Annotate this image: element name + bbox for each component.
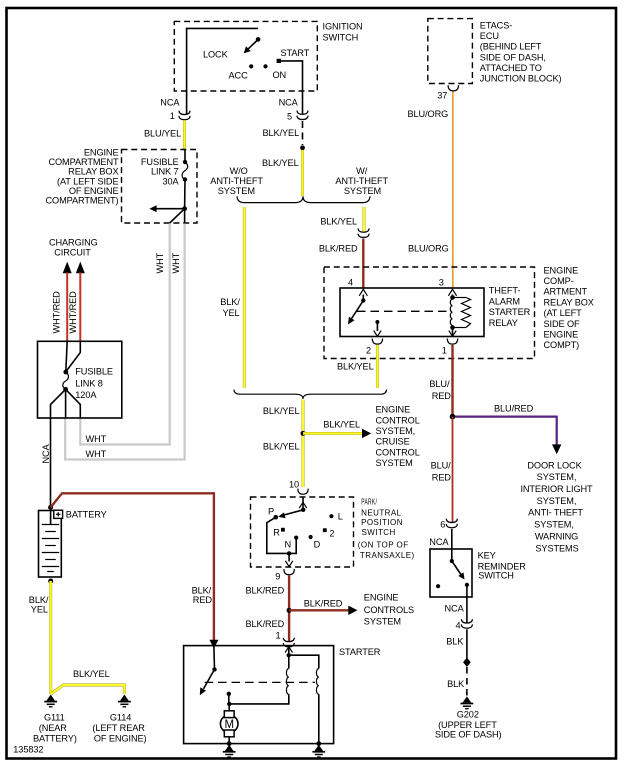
wire BLK/YEL branch to engine control [303, 432, 363, 435]
svg-text:ACC: ACC [229, 71, 249, 81]
svg-text:SYSTEM,: SYSTEM, [537, 496, 577, 506]
svg-text:BATTERY: BATTERY [66, 509, 107, 519]
svg-text:WHT: WHT [86, 449, 107, 459]
arrow to engine controls system [348, 606, 357, 615]
wire WHT lower run [65, 224, 184, 460]
node ignition common [256, 37, 261, 42]
svg-text:1: 1 [442, 346, 447, 356]
svg-text:COMPARTMENT: COMPARTMENT [48, 157, 119, 167]
wire WHT/RED 1 [66, 273, 68, 342]
svg-text:BLK/YEL: BLK/YEL [263, 406, 300, 416]
svg-text:RELAY BOX: RELAY BOX [544, 297, 594, 307]
svg-text:R: R [273, 528, 280, 538]
svg-text:BLK/YEL: BLK/YEL [337, 362, 374, 372]
svg-text:CONTROL: CONTROL [376, 447, 420, 457]
wire straight to WHT [184, 209, 186, 223]
svg-text:37: 37 [437, 90, 447, 100]
starter switch blade [204, 669, 215, 688]
svg-text:SYSTEM: SYSTEM [376, 458, 413, 468]
fusible link 8 box [38, 341, 122, 418]
svg-text:G114: G114 [110, 712, 131, 722]
svg-text:BLK/YEL: BLK/YEL [262, 158, 299, 168]
svg-text:WHT: WHT [86, 434, 107, 444]
svg-text:BLU/: BLU/ [429, 379, 450, 389]
svg-text:M: M [224, 719, 233, 731]
wire BLK/YEL battery to G111 [49, 581, 52, 694]
wire fusible link to junction [184, 180, 186, 209]
contact R [281, 528, 285, 532]
svg-text:SIDE OF: SIDE OF [544, 319, 581, 329]
svg-text:L: L [338, 512, 343, 522]
theft-alarm starter relay K1 box [340, 288, 484, 337]
node starter ground left [227, 741, 232, 746]
svg-text:SIDE OF DASH): SIDE OF DASH) [435, 730, 502, 740]
svg-text:120A: 120A [75, 390, 97, 400]
wire ignition internal feed [187, 28, 259, 114]
node battery negative [48, 579, 53, 584]
svg-text:BLK: BLK [447, 679, 465, 689]
svg-text:SYSTEM: SYSTEM [364, 616, 401, 626]
brace split w/o vs w/ anti-theft [237, 196, 370, 202]
svg-text:THEFT-: THEFT- [489, 286, 521, 296]
svg-text:RED: RED [432, 391, 452, 401]
svg-text:(AT LEFT SIDE: (AT LEFT SIDE [57, 176, 119, 186]
wire BLK/YEL w/ branch [363, 207, 366, 232]
wire pin10 into switch [302, 497, 304, 510]
relay output to pin 2 [375, 320, 379, 324]
svg-text:COMPARTMENT): COMPARTMENT) [46, 196, 119, 206]
svg-text:STARTER: STARTER [339, 647, 381, 657]
wire BLK/YEL w/o branch [243, 207, 246, 388]
node solenoid switch pivot [212, 667, 216, 671]
wire BLK/YEL splice to brace [301, 150, 304, 196]
wire BLK/RED battery cable to starter [51, 493, 214, 640]
pull-in winding L1 [288, 655, 290, 668]
key reminder switch S2 box [430, 549, 472, 597]
wire diagonal to WHT [170, 209, 185, 223]
svg-text:(LEFT REAR: (LEFT REAR [92, 723, 145, 733]
wire BLK dashed to G202 [466, 667, 468, 697]
arrow to engine control system [362, 429, 371, 438]
svg-text:ETACS-: ETACS- [480, 21, 512, 31]
svg-text:BLK/RED: BLK/RED [246, 585, 285, 595]
park/neutral position switch S3 dashed box [251, 497, 354, 567]
wire BLK/YEL merged [302, 400, 305, 488]
svg-text:ENGINE: ENGINE [376, 405, 411, 415]
svg-text:COMP-: COMP- [544, 276, 574, 286]
svg-text:30A: 30A [162, 176, 179, 186]
svg-text:4: 4 [456, 621, 461, 631]
node junction J1 [182, 206, 187, 211]
svg-text:BLK/: BLK/ [192, 585, 212, 595]
svg-text:1: 1 [276, 631, 281, 641]
svg-text:WARNING: WARNING [535, 531, 578, 541]
svg-text:IGNITION: IGNITION [323, 22, 363, 32]
svg-text:WHT/RED: WHT/RED [52, 291, 62, 334]
node BLK/YEL junction [301, 431, 306, 436]
wire pull-in to motor contact [229, 694, 288, 704]
wire battery feed into starter [213, 647, 216, 669]
starter mechanical link dashed [205, 681, 315, 683]
node engine controls junction [287, 608, 292, 613]
svg-text:BLK/RED: BLK/RED [304, 598, 343, 608]
node splice below pin5 [300, 145, 305, 150]
arrow to door lock systems [552, 444, 561, 454]
node P/N output junction [287, 551, 291, 555]
key switch blade [450, 559, 454, 563]
svg-text:NEUTRAL: NEUTRAL [361, 508, 402, 517]
wire BLK/YEL from G114 [51, 685, 124, 694]
node solenoid feed [287, 653, 291, 657]
svg-text:SYSTEM: SYSTEM [344, 186, 381, 196]
contact ACC [249, 64, 253, 68]
svg-text:RELAY: RELAY [489, 318, 518, 328]
relay coil element [462, 298, 471, 328]
contact N [294, 536, 298, 540]
ETACS-ECU U2 dashed box [428, 19, 473, 84]
svg-text:ATTACHED TO: ATTACHED TO [480, 63, 542, 73]
svg-text:(ON TOP OF: (ON TOP OF [358, 540, 409, 549]
svg-text:INTERIOR LIGHT: INTERIOR LIGHT [520, 484, 593, 494]
wire into fusible link 7 [184, 150, 186, 163]
svg-text:YEL: YEL [31, 604, 48, 614]
svg-text:10: 10 [289, 480, 299, 490]
svg-text:W/: W/ [356, 166, 368, 176]
ground G202 [461, 696, 474, 708]
svg-text:4: 4 [348, 278, 353, 288]
svg-text:BATTERY): BATTERY) [33, 734, 77, 744]
wire BLU/ORG pin37 to relay pin3 [452, 92, 454, 289]
svg-text:BLK/YEL: BLK/YEL [263, 442, 300, 452]
svg-text:JUNCTION BLOCK): JUNCTION BLOCK) [480, 74, 562, 84]
svg-text:BLK/YEL: BLK/YEL [263, 128, 300, 138]
svg-text:WHT: WHT [171, 252, 181, 273]
svg-text:G202: G202 [457, 710, 479, 720]
wire BLK/RED to engine controls [289, 609, 349, 611]
arrow to charging circuit 1 [63, 262, 72, 274]
svg-text:1: 1 [170, 111, 175, 121]
svg-text:ON: ON [273, 70, 287, 80]
contact ON [263, 64, 267, 68]
motor M [228, 704, 230, 711]
svg-text:SYSTEMS: SYSTEMS [535, 543, 578, 553]
svg-text:PARK/: PARK/ [361, 498, 377, 507]
svg-text:KEY: KEY [478, 551, 496, 561]
relay mechanical link dashed [357, 310, 449, 312]
svg-text:(NEAR: (NEAR [39, 723, 68, 733]
wire NCA black to battery [50, 418, 52, 506]
svg-text:RED: RED [432, 473, 452, 483]
svg-text:STARTER: STARTER [489, 307, 531, 317]
svg-text:ANTI- THEFT: ANTI- THEFT [528, 508, 583, 518]
svg-text:CIRCUIT: CIRCUIT [54, 247, 91, 257]
svg-text:2: 2 [329, 529, 334, 539]
svg-text:COMPT): COMPT) [544, 340, 580, 350]
arrow to other circuits [156, 208, 185, 210]
starter M1 box [184, 646, 334, 744]
svg-text:LOCK: LOCK [203, 50, 229, 60]
svg-text:2: 2 [366, 346, 371, 356]
wire fan-out below link [51, 389, 66, 418]
svg-text:SYSTEM: SYSTEM [218, 186, 255, 196]
connector C-01 inline [358, 228, 369, 237]
svg-text:BLK/YEL: BLK/YEL [323, 420, 360, 430]
svg-text:NCA: NCA [279, 98, 299, 108]
svg-text:START: START [281, 48, 310, 58]
svg-text:BLU/ORG: BLU/ORG [408, 109, 449, 119]
hold-in winding L2 [316, 669, 318, 695]
svg-text:RED: RED [193, 595, 213, 605]
pin 9 [284, 569, 294, 575]
pin 2 [372, 339, 382, 345]
svg-text:N: N [285, 540, 292, 550]
svg-text:LINK 7: LINK 7 [151, 167, 179, 177]
battery positive terminal [54, 510, 63, 518]
svg-text:BLK/RED: BLK/RED [319, 244, 358, 254]
wire into key reminder switch [451, 529, 453, 561]
engine compartment relay box (fusible link 7) dashed box [122, 150, 198, 224]
svg-text:(UPPER LEFT: (UPPER LEFT [438, 720, 497, 730]
svg-text:BLU/: BLU/ [431, 461, 452, 471]
node motor feed [227, 702, 231, 706]
svg-text:SIDE OF DASH,: SIDE OF DASH, [480, 52, 546, 62]
svg-text:BLK/YEL: BLK/YEL [320, 217, 357, 227]
wire motor to ground [228, 737, 230, 744]
engine compartment relay box 2 dashed box [324, 267, 535, 359]
svg-text:OF ENGINE): OF ENGINE) [94, 734, 147, 744]
svg-text:BLK/YEL: BLK/YEL [73, 669, 110, 679]
wire BLK/YEL pin5 dashed segment [302, 121, 304, 145]
svg-text:CRUISE: CRUISE [376, 437, 410, 447]
svg-text:WHT/RED: WHT/RED [68, 291, 78, 334]
svg-text:NCA: NCA [41, 443, 51, 463]
svg-text:BLK/: BLK/ [220, 297, 240, 307]
node starter ground right [316, 741, 321, 746]
wire WHT/RED 2 [79, 273, 81, 342]
svg-text:NCA: NCA [429, 537, 449, 547]
svg-text:SYSTEM,: SYSTEM, [534, 520, 574, 530]
node battery positive junction [48, 505, 53, 510]
wire to pin 9 [288, 553, 290, 561]
svg-text:NCA: NCA [160, 98, 180, 108]
svg-text:D: D [314, 540, 321, 550]
svg-text:ENGINE: ENGINE [544, 330, 579, 340]
svg-text:FUSIBLE: FUSIBLE [75, 367, 113, 377]
svg-text:SWITCH: SWITCH [323, 33, 359, 43]
svg-text:(BEHIND LEFT: (BEHIND LEFT [480, 42, 542, 52]
solenoid main contact [227, 692, 231, 696]
pin 1 [447, 339, 457, 345]
wire BLU/RED to key reminder switch [452, 417, 454, 522]
svg-text:BLU/RED: BLU/RED [494, 404, 534, 414]
wire P to output [267, 517, 296, 553]
svg-text:BLU/ORG: BLU/ORG [408, 244, 449, 254]
svg-text:3: 3 [439, 278, 444, 288]
svg-text:RELAY BOX: RELAY BOX [68, 167, 118, 177]
svg-text:135832: 135832 [13, 744, 43, 754]
relay switch blade [362, 295, 364, 301]
ground G114 [118, 695, 131, 707]
svg-text:(AT LEFT: (AT LEFT [544, 308, 583, 318]
P/N switch blade to P [284, 510, 303, 515]
brace merge to single BLK/YEL [234, 390, 387, 399]
switch blade LOCK position [248, 39, 259, 49]
svg-text:ARTMENT: ARTMENT [544, 287, 588, 297]
wire BLK/RED pin9 to starter pin1 [288, 575, 290, 641]
wire BLU/YEL pin1 to fusible link 7 [183, 121, 186, 150]
wire BLU/RED relay pin1 down [451, 345, 453, 417]
contact 2 [323, 528, 327, 532]
svg-text:TRANSAXLE): TRANSAXLE) [360, 551, 415, 560]
svg-text:ANTI-THEFT: ANTI-THEFT [210, 176, 263, 186]
pin 37 [448, 85, 458, 91]
svg-text:SWITCH: SWITCH [362, 528, 396, 537]
contact START [277, 59, 281, 63]
svg-text:ANTI-THEFT: ANTI-THEFT [335, 176, 388, 186]
svg-text:6: 6 [440, 520, 445, 530]
fusible link element [183, 160, 187, 164]
svg-text:CHARGING: CHARGING [49, 238, 98, 248]
svg-text:NCA: NCA [445, 604, 465, 614]
node P/N common [301, 508, 305, 512]
wire pin1 into solenoid [288, 647, 290, 656]
svg-text:ENGINE: ENGINE [84, 148, 119, 158]
svg-text:OF ENGINE: OF ENGINE [69, 186, 119, 196]
wire START to pin 5 [281, 61, 303, 114]
svg-text:ENGINE: ENGINE [544, 265, 579, 275]
ignition switch S1 dashed box [174, 21, 317, 91]
svg-text:YEL: YEL [223, 308, 240, 318]
svg-text:FUSIBLE: FUSIBLE [141, 157, 179, 167]
fusible link 8 element [63, 370, 68, 375]
wire BLK/RED to relay pin 4 [362, 239, 364, 289]
svg-text:ECU: ECU [480, 31, 499, 41]
svg-text:BLK/RED: BLK/RED [246, 619, 285, 629]
svg-text:BLU/YEL: BLU/YEL [144, 129, 181, 139]
arrow to charging circuit 2 [76, 262, 85, 274]
ground starter left [223, 745, 236, 757]
wire BLK to splice [466, 629, 468, 658]
svg-text:5: 5 [287, 112, 292, 122]
wire to hold-in winding [289, 655, 319, 668]
wire BLK/YEL relay pin2 down [376, 345, 379, 388]
ground starter right [312, 745, 325, 757]
pin 1 arrow [449, 331, 456, 337]
svg-text:SYSTEM,: SYSTEM, [376, 426, 416, 436]
svg-text:POSITION: POSITION [361, 518, 403, 527]
contact P [274, 515, 279, 520]
svg-text:SYSTEM,: SYSTEM, [537, 472, 577, 482]
svg-text:DOOR LOCK: DOOR LOCK [527, 460, 582, 470]
ground G111 [44, 695, 57, 707]
svg-text:BLK: BLK [446, 637, 464, 647]
svg-text:W/O: W/O [230, 166, 248, 176]
wire red feeds inside box [66, 341, 67, 372]
splice joint [463, 657, 471, 667]
relay coil branch [452, 295, 454, 300]
svg-text:CONTROLS: CONTROLS [364, 605, 414, 615]
svg-text:CONTROL: CONTROL [376, 415, 420, 425]
svg-text:LINK 8: LINK 8 [75, 378, 103, 388]
svg-text:P: P [268, 507, 274, 517]
key switch contact [465, 583, 469, 587]
wire WHT upper run [80, 224, 169, 445]
svg-text:ENGINE: ENGINE [364, 593, 399, 603]
contact D [309, 535, 313, 539]
node BLU/RED junction [450, 414, 456, 420]
battery B1 [39, 511, 62, 578]
svg-text:ALARM: ALARM [489, 296, 520, 306]
svg-text:9: 9 [275, 572, 280, 582]
arrow into starter [209, 640, 218, 649]
key switch contact open [436, 584, 440, 588]
svg-text:SWITCH: SWITCH [478, 570, 514, 580]
wire hold-in to ground [318, 694, 320, 743]
contact L [329, 514, 333, 518]
svg-text:WHT: WHT [155, 252, 165, 273]
wire BLU/RED to door lock systems [455, 417, 557, 445]
wire key switch to pin 4 [466, 585, 468, 623]
svg-text:G111: G111 [44, 712, 65, 722]
